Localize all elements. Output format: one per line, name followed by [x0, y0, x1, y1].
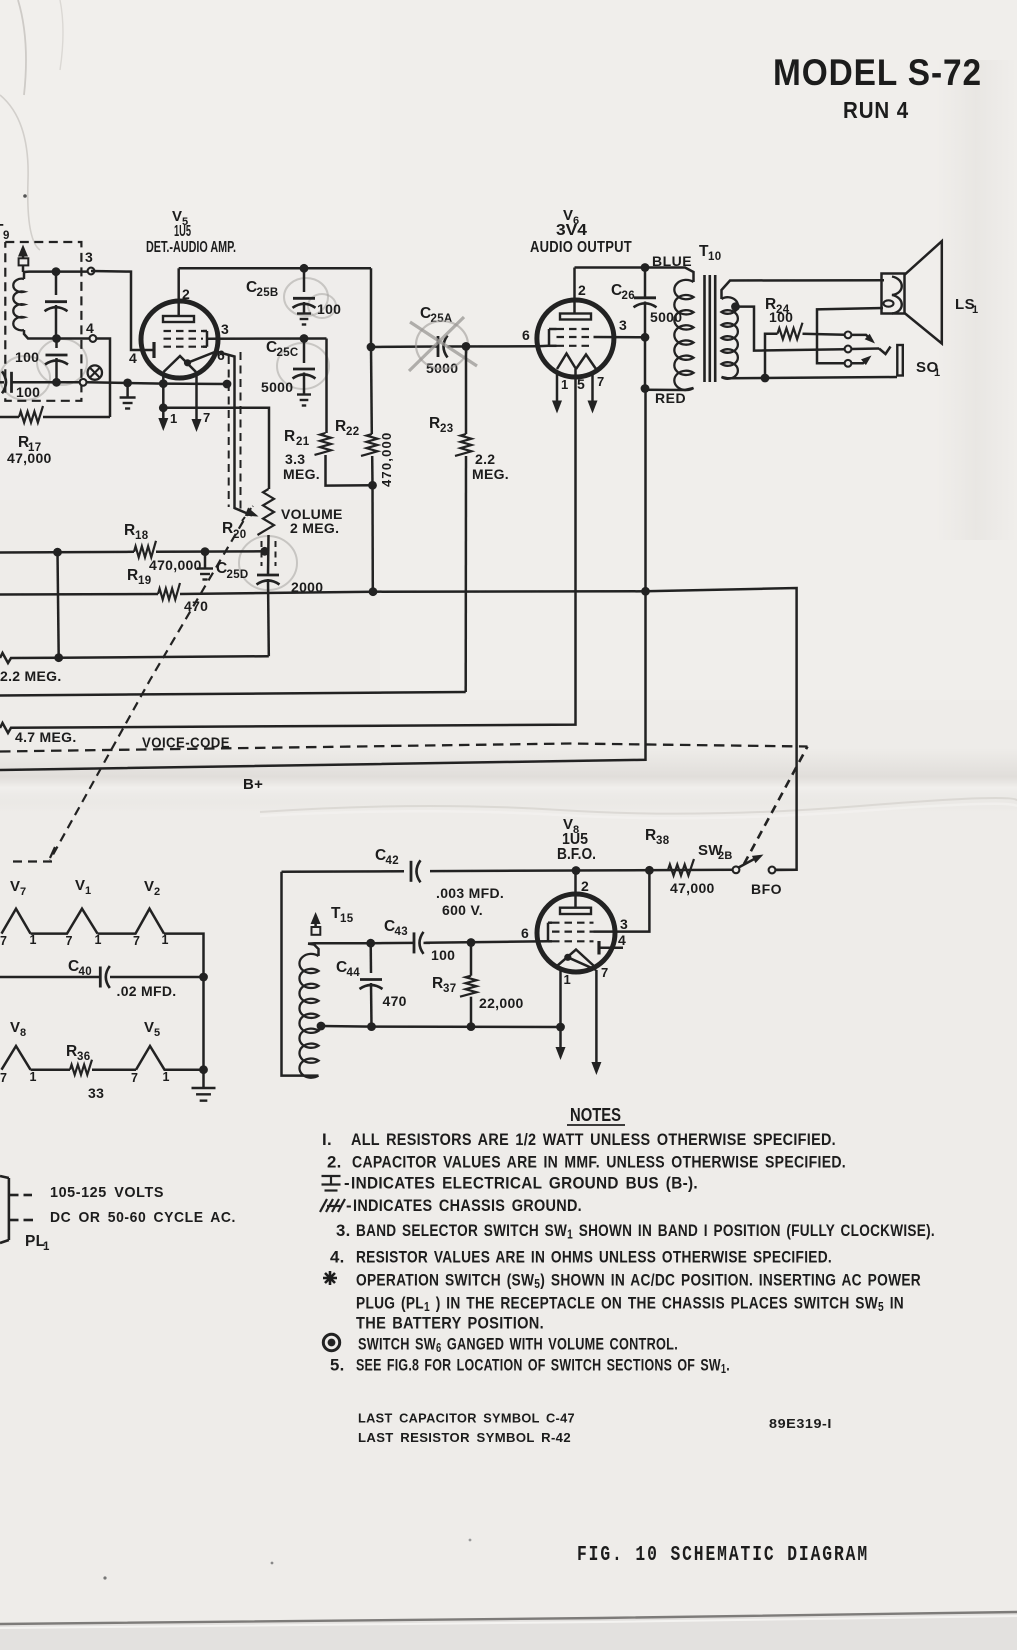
- filament V2: [98, 909, 165, 934]
- svg-text:AUDIO OUTPUT: AUDIO OUTPUT: [530, 239, 632, 256]
- speaker LS1: [882, 274, 905, 314]
- svg-text:23: 23: [440, 423, 453, 435]
- V8 grid rows: [552, 922, 594, 924]
- volume control R20: [258, 489, 275, 535]
- V5 pin 1 lead: [162, 374, 165, 425]
- V8 pin 6 wire: [426, 941, 549, 943]
- V8 pin 3 wire: [594, 870, 650, 931]
- svg-text:100: 100: [769, 309, 793, 325]
- svg-text:36: 36: [77, 1051, 90, 1063]
- svg-text:.003 MFD.: .003 MFD.: [436, 885, 504, 901]
- wire top to terminal 3: [56, 270, 88, 273]
- note: chassis ground symbol: [320, 1199, 345, 1212]
- T9 primary coil: [13, 279, 24, 331]
- V8 pin 1 lead: [559, 969, 562, 1053]
- svg-text:SEE FIG.8 FOR LOCATION OF: SEE FIG.8 FOR LOCATION OF SWITCH SECTION…: [356, 1356, 730, 1377]
- svg-text:2: 2: [581, 878, 589, 894]
- V8 filament: [557, 950, 594, 967]
- T10 secondary: [722, 280, 885, 299]
- svg-text:R: R: [335, 418, 347, 435]
- V5 plate lead pin 2: [177, 268, 180, 316]
- resistor R17: [0, 416, 19, 419]
- resistor R24: [765, 334, 778, 351]
- svg-text:7: 7: [131, 1071, 138, 1085]
- svg-text:R: R: [66, 1043, 78, 1060]
- V8 pin 4 bar: [597, 941, 600, 955]
- svg-text:LAST CAPACITOR SYMBOL C-47: LAST CAPACITOR SYMBOL C-47: [358, 1412, 575, 1426]
- V8 pin 7 lead: [595, 970, 598, 1068]
- svg-text:2.2: 2.2: [475, 451, 495, 467]
- svg-text:MEG.: MEG.: [472, 466, 509, 482]
- jack SO1 contacts: [845, 332, 852, 339]
- svg-text:BAND SELECTOR SWITCH SW1 SHO: BAND SELECTOR SWITCH SW1 SHOWN IN BAND I…: [356, 1221, 935, 1242]
- resistor R22: [370, 268, 373, 347]
- svg-text:NOTES: NOTES: [570, 1105, 621, 1125]
- svg-text:MEG.: MEG.: [283, 466, 320, 482]
- svg-text:1: 1: [561, 377, 569, 392]
- svg-text:7: 7: [20, 886, 26, 898]
- svg-text:10: 10: [708, 251, 721, 263]
- svg-text:9: 9: [3, 230, 10, 242]
- svg-text:3: 3: [620, 916, 628, 932]
- svg-text:5.: 5.: [330, 1356, 345, 1375]
- svg-text:INDICATES CHASSIS GROUND.: INDICATES CHASSIS GROUND.: [353, 1196, 582, 1215]
- V5 plate top wire: [179, 267, 371, 270]
- svg-text:26: 26: [622, 290, 635, 302]
- svg-text:.02 MFD.: .02 MFD.: [117, 983, 177, 999]
- V5 pin 7 lead: [195, 373, 198, 426]
- shielded grid lead (dashed shield): [228, 356, 230, 507]
- svg-text:25D: 25D: [227, 569, 249, 581]
- bottom paper edge: [0, 1612, 1017, 1650]
- svg-text:19: 19: [138, 575, 151, 587]
- svg-text:2 MEG.: 2 MEG.: [290, 520, 339, 536]
- svg-text:V: V: [75, 877, 85, 894]
- svg-text:1: 1: [934, 367, 940, 379]
- svg-text:3: 3: [619, 317, 627, 333]
- svg-text:600 V.: 600 V.: [442, 902, 483, 918]
- svg-text:I.: I.: [322, 1130, 332, 1149]
- capacitor C44: [366, 939, 375, 948]
- T10 core: [703, 275, 706, 382]
- svg-text:-: -: [344, 1174, 350, 1193]
- speaker return wire: [817, 308, 883, 363]
- svg-text:BFO: BFO: [751, 881, 782, 897]
- filament V5 (chain): [136, 1046, 204, 1070]
- resistor R36: [31, 1068, 71, 1071]
- svg-text:25B: 25B: [257, 287, 279, 299]
- svg-text:V: V: [10, 878, 20, 895]
- svg-text:4.7 MEG.: 4.7 MEG.: [15, 729, 77, 745]
- svg-text:V: V: [10, 1019, 20, 1036]
- svg-text:7: 7: [601, 965, 609, 980]
- svg-text:R: R: [124, 522, 136, 539]
- svg-text:2B: 2B: [718, 850, 733, 862]
- chassis ground below rail: [202, 1070, 205, 1087]
- svg-text:V: V: [144, 878, 154, 895]
- resistor R38: [668, 859, 694, 876]
- capacitor C25D: [257, 574, 279, 577]
- note: SW6 ganged symbol: [323, 1334, 339, 1350]
- filament V1: [31, 909, 98, 934]
- svg-text:470,000: 470,000: [149, 557, 202, 573]
- svg-text:THE BATTERY POSITION.: THE BATTERY POSITION.: [356, 1314, 544, 1333]
- svg-text:4: 4: [86, 320, 94, 336]
- svg-text:43: 43: [395, 926, 408, 938]
- svg-text:22: 22: [346, 426, 359, 438]
- resistor R23: [462, 342, 471, 351]
- svg-text:38: 38: [656, 835, 670, 847]
- svg-text:CAPACITOR VALUES ARE IN MM: CAPACITOR VALUES ARE IN MMF. UNLESS OTHE…: [352, 1153, 846, 1172]
- svg-text:470,000: 470,000: [379, 432, 394, 487]
- terminal 3: [88, 268, 95, 275]
- svg-text:PLUG (PL1 ) IN THE RECEPTA: PLUG (PL1 ) IN THE RECEPTACLE ON THE CHA…: [356, 1294, 904, 1315]
- svg-text:4: 4: [129, 350, 137, 366]
- svg-text:47,000: 47,000: [7, 450, 52, 466]
- tube V6 envelope: [537, 300, 614, 377]
- V6 pin 3 wire: [594, 336, 646, 339]
- svg-text:MODEL S-72: MODEL S-72: [773, 52, 982, 93]
- svg-text:1: 1: [30, 1070, 37, 1084]
- capacitor C43: [371, 942, 414, 945]
- wire ground bus line under V5: [57, 381, 80, 384]
- ground symbol (B- bus) near V5: [123, 379, 132, 388]
- svg-text:470: 470: [383, 993, 407, 1009]
- svg-text:7: 7: [203, 410, 211, 425]
- antenna arrow: [18, 245, 28, 257]
- svg-text:LAST RESISTOR SYMBOL R-42: LAST RESISTOR SYMBOL R-42: [358, 1431, 571, 1445]
- svg-text:4.: 4.: [330, 1248, 345, 1267]
- svg-text:OPERATION SWITCH (SW5) SHOWN: OPERATION SWITCH (SW5) SHOWN IN AC/DC PO…: [356, 1271, 921, 1292]
- T9 tuning capacitor C-A: [55, 272, 58, 295]
- svg-text:1: 1: [972, 304, 978, 316]
- capacitor C26: [644, 268, 647, 298]
- svg-text:2.: 2.: [327, 1153, 342, 1172]
- svg-text:DET.-AUDIO AMP.: DET.-AUDIO AMP.: [146, 239, 236, 256]
- svg-text:1: 1: [85, 885, 91, 897]
- V5 grid tie: [206, 331, 209, 347]
- resistor R37: [467, 938, 476, 947]
- svg-text:R: R: [432, 975, 444, 992]
- svg-text:1: 1: [170, 411, 178, 426]
- V5 pin 3 wire: [207, 337, 327, 340]
- svg-text:3V4: 3V4: [556, 222, 587, 239]
- svg-text:5: 5: [577, 376, 585, 392]
- svg-text:4: 4: [618, 932, 626, 948]
- resistor R21: [325, 339, 328, 434]
- svg-text:V: V: [144, 1019, 154, 1036]
- svg-text:6: 6: [217, 347, 225, 363]
- svg-text:1: 1: [30, 933, 37, 947]
- V8 plate: [560, 908, 591, 914]
- capacitor C25C: [300, 334, 309, 343]
- jack SO1 frame: [897, 345, 903, 376]
- V6 grid rows: [557, 328, 594, 330]
- svg-text:7: 7: [133, 934, 140, 948]
- V6 filament: [557, 354, 576, 370]
- filament V7: [2, 909, 31, 934]
- tube V8 envelope: [537, 894, 615, 972]
- svg-text:7: 7: [0, 934, 7, 948]
- T15 coil: [282, 872, 319, 1076]
- BFO terminal: [769, 867, 776, 874]
- svg-text:22,000: 22,000: [479, 995, 524, 1011]
- V6 plate wire to BLUE: [575, 266, 646, 269]
- svg-text:R: R: [429, 415, 441, 432]
- svg-text:2.2 MEG.: 2.2 MEG.: [0, 668, 62, 684]
- SW2B gang dashed line: [744, 747, 808, 865]
- svg-text:21: 21: [296, 436, 310, 448]
- resistor R18 line: [0, 551, 134, 554]
- svg-text:7: 7: [0, 1071, 7, 1085]
- svg-text:1: 1: [163, 1070, 170, 1084]
- wire filament junction to volume pot: [159, 403, 168, 412]
- svg-text:18: 18: [135, 530, 149, 542]
- svg-text:2: 2: [154, 886, 160, 898]
- svg-text:37: 37: [443, 983, 456, 995]
- svg-text:100: 100: [431, 947, 455, 963]
- svg-text:FIG. 10 SCHEMATIC DIAGRAM: FIG. 10 SCHEMATIC DIAGRAM: [577, 1543, 869, 1567]
- V6 pin 1 lead: [556, 372, 559, 407]
- V5 filament: [164, 356, 197, 372]
- V5 cathode line to pin 6: [188, 352, 217, 363]
- pencil artifact circles: [284, 278, 328, 316]
- svg-text:1: 1: [95, 933, 102, 947]
- V5 grid-1 bar pin 4: [152, 342, 155, 358]
- vertical tie R18 to 2.2MEG line: [58, 552, 59, 658]
- svg-text:1: 1: [43, 1241, 50, 1253]
- AVC line (from R23): [0, 692, 466, 696]
- V6 plate: [560, 314, 591, 320]
- svg-text:1U5: 1U5: [174, 223, 191, 240]
- shield ground junction: [223, 380, 232, 389]
- svg-text:B.F.O.: B.F.O.: [557, 846, 596, 863]
- T10 secondary tap: [731, 302, 740, 311]
- B- ground stub on R18 line: [204, 552, 207, 568]
- svg-text:1: 1: [162, 933, 169, 947]
- capacitor C25B: [303, 268, 306, 292]
- svg-text:100: 100: [317, 301, 341, 317]
- svg-text:DC OR 50-60 CYCLE AC.: DC OR 50-60 CYCLE AC.: [50, 1210, 236, 1226]
- V5 plate: [163, 316, 194, 322]
- svg-text:RED: RED: [655, 390, 686, 406]
- svg-text:15: 15: [340, 913, 354, 925]
- svg-text:R: R: [127, 567, 139, 584]
- svg-text:7: 7: [597, 374, 605, 389]
- capacitor C25A (crossed out): [437, 336, 440, 357]
- svg-text:1: 1: [564, 972, 572, 987]
- svg-text:3.: 3.: [336, 1221, 351, 1240]
- svg-text:B+: B+: [243, 776, 263, 793]
- T9 shield dashed box: [5, 242, 81, 401]
- svg-text:25C: 25C: [277, 347, 299, 359]
- capacitor 100 (lower, inside T9): [55, 339, 58, 349]
- svg-text:2: 2: [578, 282, 586, 298]
- resistor R19 line (to B+ via BFO switch): [0, 593, 158, 596]
- T15 tap: [317, 1022, 326, 1031]
- V6 plate lead pin 2: [573, 268, 576, 314]
- V6 pin 6 wire: [538, 345, 550, 348]
- svg-text:100: 100: [15, 349, 39, 365]
- svg-text:-: -: [346, 1196, 352, 1215]
- terminal 4: [57, 337, 90, 340]
- svg-text:42: 42: [386, 855, 399, 867]
- svg-text:INDICATES ELECTRICAL GROUND: INDICATES ELECTRICAL GROUND BUS (B-).: [351, 1174, 698, 1193]
- svg-text:ALL RESISTORS ARE 1/2 WATT: ALL RESISTORS ARE 1/2 WATT UNLESS OTHERW…: [351, 1130, 836, 1149]
- svg-text:3.3: 3.3: [285, 451, 305, 467]
- svg-text:6: 6: [521, 925, 529, 941]
- wire to right rail: [164, 934, 204, 1070]
- svg-text:40: 40: [79, 966, 92, 978]
- V6 grid tie: [548, 329, 551, 346]
- wire V5 plate to V6 grid (audio): [371, 345, 438, 348]
- BFO top wire: [282, 870, 737, 872]
- 4.7 MEG line: [0, 377, 576, 734]
- svg-text:3: 3: [221, 321, 229, 337]
- svg-text:8: 8: [20, 1027, 26, 1039]
- svg-text:6: 6: [522, 327, 530, 343]
- tube V5 envelope: [141, 301, 218, 378]
- grid wire inside shield: [216, 352, 252, 516]
- svg-text:RUN 4: RUN 4: [843, 97, 909, 123]
- svg-text:100: 100: [16, 384, 40, 400]
- svg-text:VOICE-CODE: VOICE-CODE: [142, 736, 230, 752]
- 2.2 MEG line: [0, 653, 269, 663]
- BFO cathode bus: [372, 1025, 561, 1028]
- svg-text:33: 33: [88, 1085, 104, 1101]
- capacitor C42: [404, 862, 430, 881]
- capacitor C40: [0, 976, 100, 979]
- svg-text:R: R: [284, 428, 296, 445]
- filament V8 (chain): [2, 1046, 31, 1070]
- svg-text:7: 7: [66, 934, 73, 948]
- shield curls at pot output: [261, 541, 263, 566]
- V6 pin 5 center tap: [574, 369, 577, 377]
- svg-text:R: R: [645, 827, 657, 844]
- VOICE-CODE dashed line: [0, 744, 808, 752]
- V6 pin 7 lead: [591, 372, 594, 407]
- svg-text:5000: 5000: [261, 379, 293, 395]
- svg-text:SWITCH SW6 GANGED WITH VOLU: SWITCH SW6 GANGED WITH VOLUME CONTROL.: [358, 1335, 678, 1356]
- plug PL1: [8, 1178, 11, 1240]
- svg-text:5: 5: [154, 1027, 160, 1039]
- note: electrical ground bus symbol: [322, 1175, 341, 1177]
- capacitor 100 at left edge: [0, 381, 4, 384]
- V8 grid tie: [547, 923, 550, 942]
- pencil X deletion mark over C25A: [416, 321, 468, 369]
- mechanical ganging dashed line (R20 to SW6): [50, 508, 251, 860]
- switch SW2B: [733, 866, 740, 873]
- svg-text:44: 44: [347, 967, 361, 979]
- V5 grid rows: [164, 330, 204, 332]
- svg-text:RESISTOR VALUES ARE IN OHM: RESISTOR VALUES ARE IN OHMS UNLESS OTHER…: [356, 1248, 832, 1267]
- svg-text:47,000: 47,000: [670, 880, 715, 896]
- svg-text:105-125 VOLTS: 105-125 VOLTS: [50, 1185, 164, 1201]
- svg-text:3: 3: [85, 249, 93, 265]
- T10 primary: [645, 268, 694, 283]
- wire terminal4 to V5 grid bar: [96, 339, 110, 418]
- B+ line: [0, 389, 646, 771]
- pilot lamp symbol: [88, 365, 102, 379]
- note *: operation switch: [323, 1271, 337, 1285]
- V8 plate lead pin 2: [572, 866, 581, 875]
- svg-text:89E319-I: 89E319-I: [769, 1417, 832, 1431]
- svg-text:R: R: [222, 520, 234, 537]
- svg-text:2: 2: [182, 286, 190, 302]
